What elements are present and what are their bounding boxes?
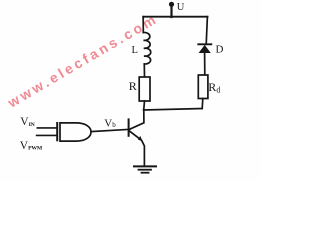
wire right drop to diode	[206, 17, 207, 45]
svg-text:D: D	[216, 43, 224, 55]
wire diode to Rd	[204, 53, 206, 75]
inductor L	[143, 32, 150, 64]
and-gate U1 body	[60, 123, 91, 141]
wire R to bottom rail	[143, 101, 146, 110]
resistor R	[139, 77, 150, 101]
wire bottom rail	[144, 109, 203, 111]
svg-text:U: U	[177, 2, 185, 13]
svg-text:VPWM: VPWM	[20, 140, 43, 152]
ground	[134, 166, 156, 172]
wire Rd to bottom rail	[201, 99, 204, 109]
svg-text:Vb: Vb	[104, 117, 116, 129]
svg-text:VIN: VIN	[20, 116, 35, 128]
wire left drop to inductor	[142, 17, 144, 33]
transistor Q1 base bar	[128, 119, 130, 135]
and-gate input bar	[56, 123, 58, 140]
wire collector drop	[129, 110, 144, 130]
svg-text:Rd: Rd	[208, 80, 220, 95]
wire top rail	[143, 16, 207, 18]
resistor Rd	[198, 75, 208, 99]
wire base from gate	[91, 129, 129, 131]
svg-text:www.elecfans.com: www.elecfans.com	[4, 10, 161, 111]
transistor Q1 emitter with arrow	[129, 131, 145, 166]
wire inductor to R	[143, 64, 145, 77]
wire input Vin	[37, 127, 56, 129]
svg-text:L: L	[132, 45, 138, 56]
wire input Vpwm	[37, 134, 57, 136]
terminal U	[169, 2, 174, 17]
svg-text:R: R	[129, 79, 137, 93]
diode D	[198, 44, 211, 53]
